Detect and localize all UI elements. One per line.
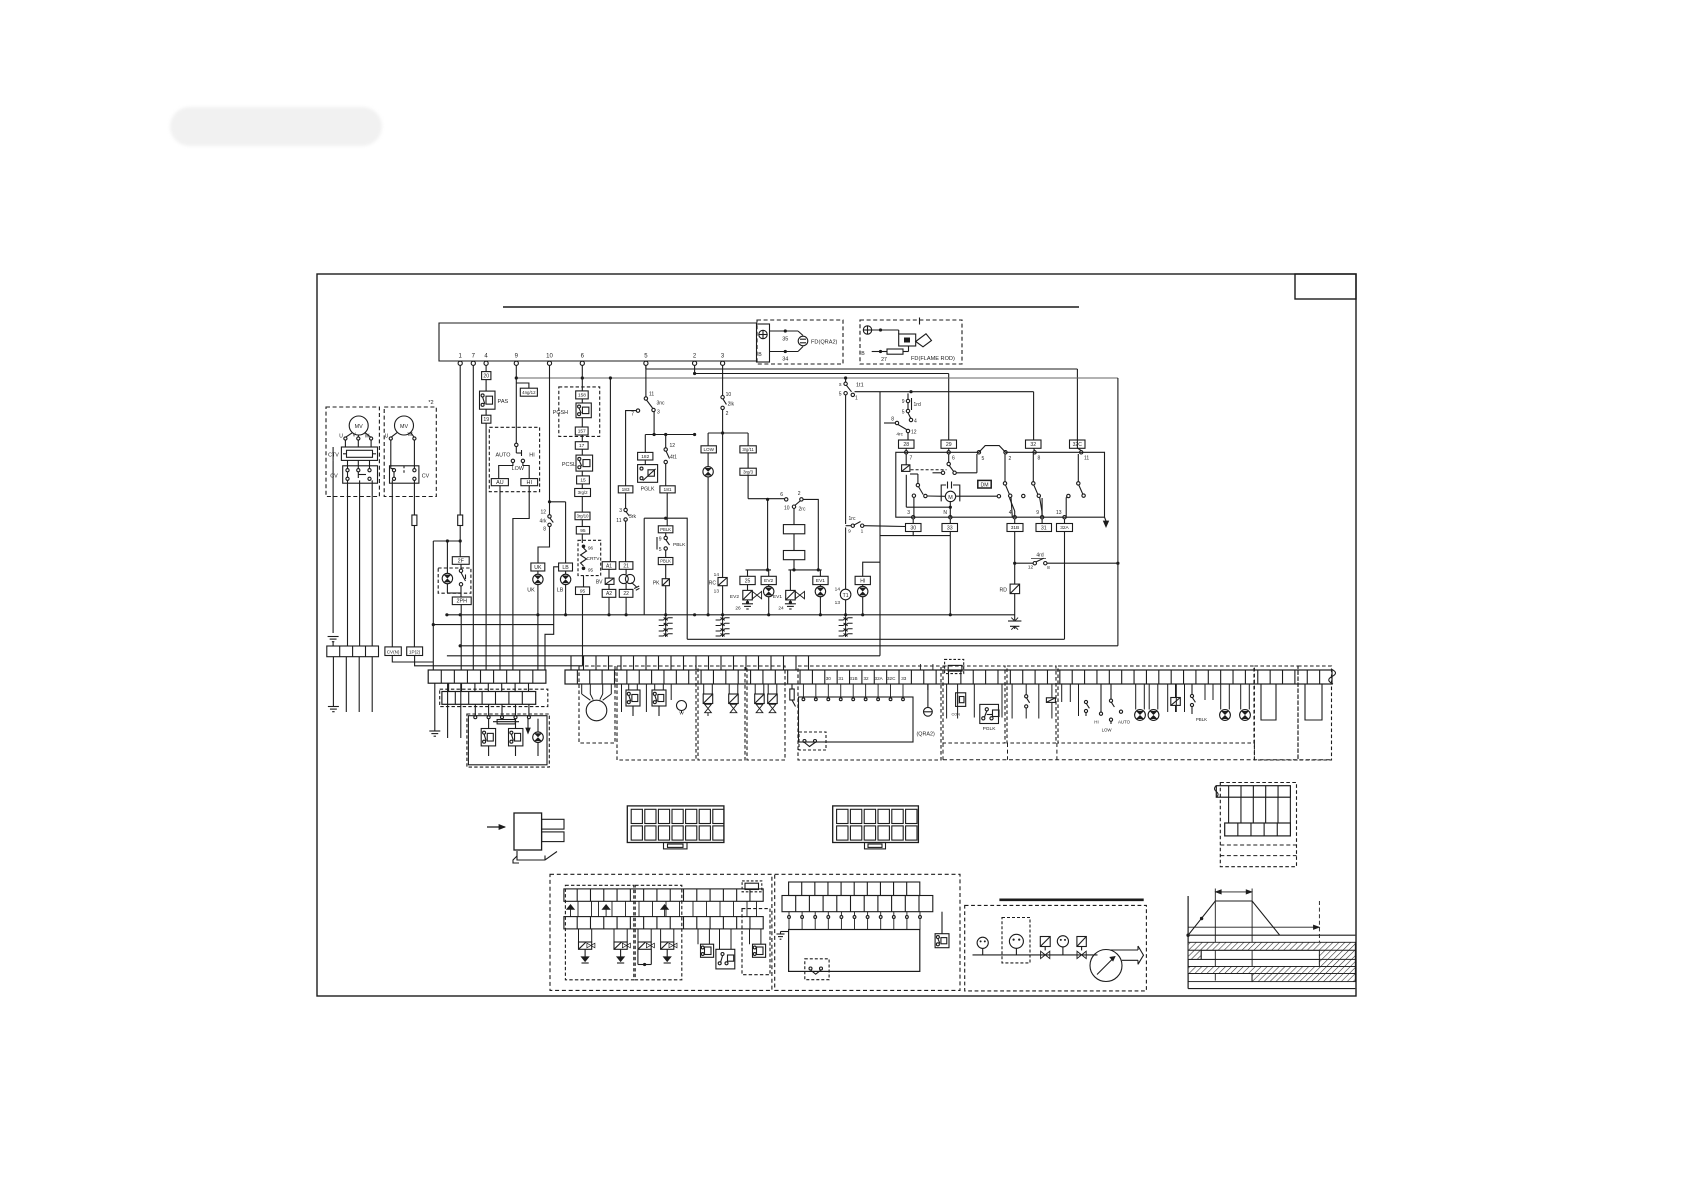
svg-text:HI: HI <box>1094 720 1098 725</box>
terminal CV(N) <box>385 647 401 656</box>
svg-text:9: 9 <box>1036 510 1039 516</box>
terminal 158 <box>576 391 589 399</box>
tall U loop 2 <box>1305 684 1322 720</box>
plate pin 13 <box>1056 510 1066 519</box>
label AUTO <box>496 452 511 458</box>
igniter tails <box>622 684 672 712</box>
svg-text:CON: CON <box>952 713 961 717</box>
plate pin N <box>943 510 952 519</box>
bottom-right section (dashed) <box>775 874 960 990</box>
svg-text:10: 10 <box>546 354 553 360</box>
svg-text:CV: CV <box>422 474 430 480</box>
svg-text:FD(FLAME ROD): FD(FLAME ROD) <box>911 356 955 362</box>
terminal 95 (lower) <box>576 576 590 595</box>
terminal 31B <box>1007 519 1023 532</box>
svg-text:CV(N): CV(N) <box>387 649 400 654</box>
label FD(QRA2) <box>811 340 838 346</box>
svg-text:N: N <box>943 510 947 516</box>
pressure switch PAS <box>480 391 509 409</box>
svg-text:2PH: 2PH <box>457 599 468 605</box>
section title underline <box>503 306 1079 308</box>
svg-text:182: 182 <box>641 454 649 460</box>
svg-text:EV1: EV1 <box>773 594 782 600</box>
group box igniters (dashed) <box>617 666 696 760</box>
svg-text:MV: MV <box>355 424 363 430</box>
bl component 1 <box>698 929 714 957</box>
svg-text:UK: UK <box>534 565 542 571</box>
terminal A1 <box>602 562 616 570</box>
timer aux contact <box>933 471 945 474</box>
svg-text:RD: RD <box>1000 588 1008 594</box>
svg-text:W: W <box>408 432 413 438</box>
terminal 22 <box>619 589 633 597</box>
svg-text:11: 11 <box>649 392 654 398</box>
gas valve 1 <box>1040 937 1050 959</box>
coil in group3 <box>1171 684 1181 712</box>
terminal 3rg/2 <box>575 484 591 497</box>
switch 4rk <box>540 510 554 533</box>
br board feeds <box>788 912 922 930</box>
ground under motor connector <box>328 707 339 712</box>
lamp EV2 <box>764 585 774 615</box>
br flame bridge (dashed) <box>805 959 829 980</box>
valve B2 <box>768 684 778 713</box>
bl valve 2 <box>614 929 630 963</box>
svg-text:11: 11 <box>616 518 621 524</box>
rail y614 <box>445 613 1014 616</box>
plate pin 4 <box>1009 498 1017 519</box>
breaker 2PH <box>452 597 471 605</box>
node 34 <box>782 350 788 363</box>
svg-text:2rc: 2rc <box>799 506 806 512</box>
plate pin 9 <box>1036 498 1044 519</box>
2F switch enclosure (dashed) <box>438 568 471 593</box>
svg-text:5: 5 <box>839 392 842 398</box>
br connector row 1 <box>789 882 920 896</box>
contact DM label <box>978 480 991 488</box>
svg-text:PBLK: PBLK <box>1196 717 1207 722</box>
connector CV (motor1) <box>330 466 377 483</box>
bottom-left component box (inner) <box>468 716 547 765</box>
switch group3 <box>1084 700 1089 716</box>
wires MV1 into CTV <box>345 440 371 447</box>
PGLK component (bottom) <box>974 684 1002 732</box>
terminal 3rg/10 <box>575 497 590 520</box>
group box lamps (dashed) <box>1058 666 1254 743</box>
timing dim arrow <box>1215 890 1252 894</box>
water sensor W <box>677 701 687 716</box>
switch in group2 <box>1012 684 1030 719</box>
ground above motor connector <box>328 637 339 647</box>
svg-text:*2: *2 <box>428 400 433 406</box>
branch pin10 to LB <box>550 502 566 563</box>
wire flame-rod top <box>872 330 899 334</box>
label LOW <box>512 466 525 472</box>
lamp feed branch <box>433 539 462 542</box>
svg-text:AU: AU <box>496 480 504 486</box>
wire pin5 to 3nc <box>645 365 647 396</box>
svg-text:1: 1 <box>855 396 858 402</box>
staggered connector enclosure (dashed) <box>1220 783 1296 867</box>
svg-text:6: 6 <box>952 456 955 462</box>
svg-text:DM: DM <box>980 482 988 488</box>
power bus outline <box>439 323 757 361</box>
timing horizontal arrow <box>1188 925 1319 929</box>
plate pin 6 <box>947 448 955 461</box>
pressure gauge 1 <box>977 937 988 955</box>
selector common <box>515 443 518 447</box>
svg-text:32A: 32A <box>1060 525 1069 531</box>
fuse in component box <box>493 720 519 724</box>
valve A2 <box>729 684 739 713</box>
switch 1rc <box>846 395 906 535</box>
lamp HI <box>858 585 868 615</box>
bl valve 1 <box>579 929 595 963</box>
svg-text:32C: 32C <box>887 676 896 681</box>
wires MV2 to CV <box>391 440 415 469</box>
sub-box B (dashed) <box>635 885 682 980</box>
strip feed stubs right <box>920 664 933 670</box>
svg-text:7: 7 <box>631 412 634 418</box>
wire QRA2 top <box>770 330 799 332</box>
rail from pin 2 (node 29 feed) <box>693 365 949 440</box>
wire pin3 column <box>722 365 724 395</box>
staggered mid pins <box>1229 797 1291 823</box>
svg-text:2F: 2F <box>458 558 465 564</box>
svg-text:31B: 31B <box>1011 525 1020 531</box>
svg-text:LB: LB <box>557 588 564 594</box>
damper box lower <box>783 534 804 560</box>
svg-text:B: B <box>758 352 762 358</box>
svg-text:LOW: LOW <box>703 447 714 452</box>
terminal 19 <box>482 415 491 423</box>
sensor resistor <box>790 684 796 707</box>
plate pin 3 <box>907 510 915 519</box>
svg-text:12: 12 <box>540 510 546 516</box>
svg-text:3rg/2: 3rg/2 <box>578 490 589 495</box>
terminal EV2 <box>761 576 776 584</box>
switch 1rd <box>902 393 921 424</box>
switch 4t1 <box>664 433 696 464</box>
svg-text:PK: PK <box>653 581 660 587</box>
fan speed selector enclosure (dashed) <box>489 427 539 491</box>
svg-text:33: 33 <box>901 676 907 681</box>
harness arrow <box>487 825 505 830</box>
terminal UK <box>531 563 545 571</box>
svg-text:1P(2): 1P(2) <box>409 649 421 654</box>
svg-text:A1: A1 <box>606 563 612 569</box>
svg-text:1rd: 1rd <box>914 402 921 408</box>
wire 2PH down <box>459 605 462 670</box>
rail from pin 5 to relay box (node 32C feed) <box>646 365 1078 440</box>
bottom-left component box (dashed) <box>467 714 549 767</box>
svg-text:35: 35 <box>782 337 788 343</box>
timer motor coil <box>902 454 910 471</box>
strip end squiggle <box>1329 670 1336 685</box>
feeder wire left <box>432 541 435 670</box>
wire CV(N) jog <box>392 656 433 663</box>
lamp in component box <box>533 719 544 756</box>
svg-text:6: 6 <box>780 492 783 498</box>
wire damper down <box>792 560 820 572</box>
fan motor enclosure 2 (dashed) <box>384 407 436 497</box>
wire selector to HI <box>523 463 529 479</box>
pressure gauge 2 <box>1009 934 1023 955</box>
plate pin 7 <box>905 448 913 461</box>
4-pole motor connector <box>327 646 379 657</box>
blower fan <box>1090 946 1144 982</box>
FD(QRA2) enclosure (dashed) <box>757 320 843 364</box>
svg-text:3: 3 <box>907 510 910 516</box>
plate pin 5 <box>977 451 984 462</box>
plate contact a <box>956 454 1012 517</box>
wire selector to AU <box>499 463 513 479</box>
resistor on motor2 lead <box>412 480 417 647</box>
secondary strip <box>442 692 536 705</box>
node B (QRA2) <box>758 352 762 358</box>
relay box left edge <box>879 392 881 656</box>
svg-text:95: 95 <box>588 568 594 573</box>
svg-text:181: 181 <box>664 487 672 493</box>
relay coil BV <box>596 569 614 585</box>
wire pin6 column top <box>581 365 583 391</box>
svg-text:1rc: 1rc <box>849 516 856 522</box>
svg-text:13: 13 <box>835 600 841 606</box>
svg-text:A2: A2 <box>606 591 612 597</box>
svg-text:29: 29 <box>946 442 952 448</box>
svg-text:LB: LB <box>562 565 569 571</box>
terminal 32 <box>1026 440 1042 448</box>
svg-text:32: 32 <box>863 676 869 681</box>
flame electrode <box>916 318 932 347</box>
relay component 2 <box>509 719 523 756</box>
plug connector <box>514 813 564 850</box>
wire 32A down <box>1064 532 1066 640</box>
wire 31B to 4rd <box>1013 532 1033 565</box>
terminal 4ng/12 <box>516 383 537 396</box>
resistor 27 <box>881 349 903 363</box>
wire QRA2 bottom <box>770 351 799 353</box>
timer contact plate <box>896 446 1105 518</box>
svg-text:8: 8 <box>891 417 894 423</box>
terminal 25 <box>740 576 755 584</box>
timing top line <box>1188 934 1355 936</box>
wires CTV to CV <box>348 460 370 468</box>
bl valve 3 <box>638 929 655 966</box>
switch 3rk <box>616 493 636 524</box>
terminal 32C <box>1070 440 1086 448</box>
svg-text:CV: CV <box>330 474 338 480</box>
svg-text:12: 12 <box>670 443 676 449</box>
terminal LOW <box>701 433 716 453</box>
svg-text:4rk: 4rk <box>540 519 547 525</box>
terminal A2 <box>602 584 616 597</box>
svg-text:HI: HI <box>529 452 534 458</box>
grey rail from pin 9/6 to relay box right edge <box>515 376 1118 379</box>
wire pin4 to 20 <box>485 365 487 371</box>
svg-text:8: 8 <box>543 527 546 533</box>
bus terminal pins 1,7,4,9,10,6,5,2,3 <box>458 354 725 366</box>
svg-text:10: 10 <box>726 392 732 398</box>
switch PBLK (board) <box>1190 684 1213 722</box>
bl aux connector (dashed) <box>742 881 762 892</box>
wire 95 down <box>582 595 584 666</box>
fan motor enclosure 1 (dashed) <box>326 407 379 497</box>
wire 3nc to 183 column <box>626 411 637 486</box>
terminal 95 (upper) <box>576 520 589 534</box>
LB side tap <box>545 567 559 670</box>
svg-text:CTV: CTV <box>328 453 339 459</box>
wire 1P(2) jog <box>415 656 583 666</box>
svg-text:2: 2 <box>726 411 729 417</box>
label (QRA2) <box>917 732 935 738</box>
selector contacts AUTO/HI <box>511 459 524 462</box>
group box tall U2 (dashed) <box>1298 666 1332 760</box>
svg-text:15: 15 <box>580 478 586 484</box>
valve A1 <box>703 684 713 716</box>
svg-text:8: 8 <box>1047 565 1050 571</box>
svg-text:95: 95 <box>580 528 586 534</box>
terminal 183 <box>618 486 633 493</box>
svg-text:2lk: 2lk <box>728 402 735 408</box>
timing band 1 <box>1188 942 1355 950</box>
timing dim verticals <box>1215 889 1252 981</box>
svg-text:13: 13 <box>714 589 720 595</box>
svg-text:EV2: EV2 <box>764 578 773 584</box>
svg-text:31: 31 <box>838 676 844 681</box>
svg-text:HI: HI <box>860 578 865 584</box>
flame rod holder <box>899 334 916 346</box>
wire 3nc to 182 <box>645 412 694 453</box>
PBLK branch riser <box>644 517 687 640</box>
svg-text:157: 157 <box>578 429 586 435</box>
svg-text:LOW: LOW <box>1102 728 1113 733</box>
wire 19 down <box>485 423 487 670</box>
svg-text:3: 3 <box>619 508 622 514</box>
plate pin 11 <box>1077 440 1089 462</box>
svg-text:10: 10 <box>784 506 790 512</box>
svg-text:14: 14 <box>835 587 841 593</box>
secondary strip (dashed surround) <box>440 689 548 706</box>
svg-text:PGLK: PGLK <box>641 486 655 492</box>
svg-text:3: 3 <box>657 410 660 416</box>
terminal 3rg/3 <box>740 453 756 475</box>
switch 2lk <box>721 392 735 433</box>
motor1 leads to connector <box>333 447 372 646</box>
bl component 3 <box>750 929 766 957</box>
motor start switch <box>906 474 952 517</box>
ground symbol (QRA2) <box>759 330 767 338</box>
terminal LB <box>559 563 573 571</box>
chassis bundle T1 <box>839 616 853 637</box>
group box tall U1 (dashed) <box>1254 666 1298 760</box>
svg-text:8: 8 <box>1038 456 1041 462</box>
group box CON (dashed) <box>943 666 1005 743</box>
svg-text:3rk: 3rk <box>629 514 636 520</box>
svg-text:7: 7 <box>910 456 913 462</box>
solenoid EV1 valve <box>773 590 805 611</box>
motor M <box>941 482 960 518</box>
br relay right <box>935 912 949 948</box>
svg-text:30: 30 <box>826 676 832 681</box>
svg-text:3rg/3: 3rg/3 <box>743 469 754 474</box>
ground under strip left <box>429 731 440 736</box>
timing trapezoid <box>1186 901 1279 937</box>
timing band 3 <box>1188 959 1355 966</box>
wire 32 feed <box>1033 392 1035 440</box>
selector lever <box>516 447 521 456</box>
timer T1 <box>835 527 851 614</box>
svg-text:11: 11 <box>1084 456 1089 462</box>
terminal 20 <box>482 372 491 380</box>
wire 20 to PAS <box>485 380 487 392</box>
svg-text:EV1: EV1 <box>816 578 825 584</box>
group box fan (dashed) <box>579 666 615 743</box>
timing bottom line <box>1188 988 1355 990</box>
sub-box A (dashed) <box>565 885 633 980</box>
relay box bottom <box>880 645 1118 647</box>
PGSH enclosure (dashed) <box>559 387 600 437</box>
svg-text:FD(QRA2): FD(QRA2) <box>811 340 838 346</box>
terminal 182 <box>638 452 653 460</box>
svg-text:33: 33 <box>947 525 953 531</box>
wire pin1 column <box>458 365 463 556</box>
svg-text:PBLK: PBLK <box>660 559 671 564</box>
terminal 157 <box>575 418 588 435</box>
rail y645 <box>459 644 880 647</box>
terminal 181 <box>660 464 675 493</box>
terminal 31 <box>1036 519 1052 532</box>
svg-text:MV: MV <box>400 424 408 430</box>
timing band 2 <box>1188 950 1355 959</box>
terminal 33 <box>942 519 958 532</box>
ground symbol (flame rod) <box>863 326 871 334</box>
svg-text:2: 2 <box>1009 456 1012 462</box>
lamp pair 1 <box>1135 684 1159 720</box>
wire A1 riser <box>609 378 611 562</box>
bl connector row 2 <box>564 917 763 929</box>
group box QRA2 (dashed) <box>798 666 941 760</box>
svg-text:UK: UK <box>527 588 535 594</box>
svg-text:28: 28 <box>903 442 909 448</box>
fan motor in group <box>582 684 612 721</box>
strip pin labels 30-33 <box>826 676 907 681</box>
pressure gauge 3 <box>1057 936 1068 955</box>
outer drawing border <box>317 274 1356 996</box>
switch 4rc <box>884 417 917 441</box>
bottom-left section (dashed) <box>550 874 772 990</box>
strip feed drops <box>571 656 809 670</box>
svg-text:1: 1 <box>861 529 864 535</box>
terminal AU <box>491 479 508 486</box>
svg-text:9: 9 <box>848 529 851 535</box>
svg-text:21: 21 <box>623 563 629 569</box>
gauge 2 enclosure (dashed) <box>1002 918 1030 963</box>
svg-text:96: 96 <box>588 546 594 551</box>
svg-text:4ng/12: 4ng/12 <box>522 390 536 395</box>
wire 1t1 to relay box <box>855 390 1034 393</box>
lamp 4 <box>1240 684 1251 720</box>
valve B1 <box>755 684 765 713</box>
svg-text:W: W <box>365 434 370 440</box>
lamp EV1 <box>815 585 825 615</box>
svg-text:BV: BV <box>596 580 603 586</box>
svg-text:U: U <box>339 434 343 440</box>
node top (flame rod) <box>879 328 882 331</box>
timing dashed vertical <box>1318 901 1320 974</box>
svg-text:B: B <box>861 351 865 357</box>
node 35 <box>782 329 788 342</box>
